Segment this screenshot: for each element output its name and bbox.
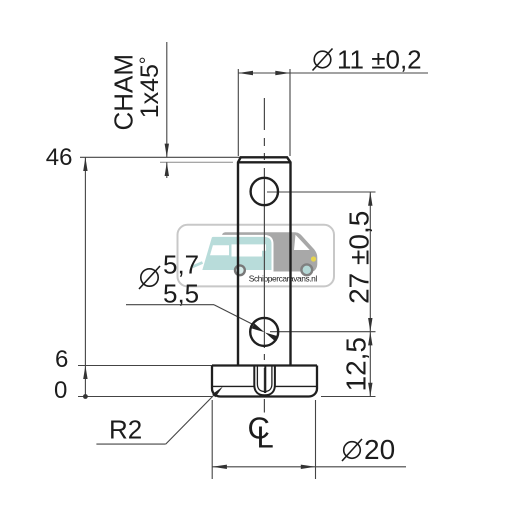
flange slot outer U: [254, 366, 275, 395]
dimension CHAM 1x45: [166, 42, 168, 157]
svg-text:46: 46: [46, 144, 73, 171]
svg-text:11 ±0,2: 11 ±0,2: [337, 45, 422, 75]
svg-text:L: L: [257, 420, 274, 455]
dimension diameter 11: [237, 69, 239, 156]
flange slot center line: [264, 366, 266, 393]
svg-text:5,5: 5,5: [163, 279, 199, 309]
svg-text:1x45°: 1x45°: [136, 56, 164, 118]
flange outline: [212, 366, 317, 397]
caravan teal: [201, 236, 273, 271]
flange slot inner U: [257, 366, 272, 392]
label diameter 11 ±0,2: [313, 49, 333, 71]
svg-text:6: 6: [55, 346, 68, 373]
extension line 46/CHAM top (y=157.3): [80, 156, 241, 158]
svg-text:20: 20: [364, 434, 395, 465]
label diameter 20: [342, 439, 362, 461]
dimension diameter 20: [211, 400, 213, 479]
flange inner line (R2 tangent): [212, 385, 254, 387]
top hole: [251, 178, 278, 205]
svg-text:0: 0: [54, 377, 67, 404]
motorhome gray: [222, 232, 317, 271]
svg-text:Schippercaravans.nl: Schippercaravans.nl: [249, 273, 318, 283]
extension line 6 (y=365.5): [78, 365, 212, 367]
part outline: shaft with chamfer: [238, 157, 291, 365]
watermark logo Schippercaravans.nl: [178, 225, 335, 287]
svg-text:CHAM: CHAM: [109, 54, 139, 131]
dimension 46/6/0 vertical line: [84, 157, 86, 396]
dimension 27 / 12,5 vertical: [369, 192, 371, 397]
extension line bottom hole center: [270, 331, 376, 333]
svg-text:12,5: 12,5: [340, 337, 371, 392]
centerline: [263, 98, 265, 413]
label diameter 5,7 / 5,5 with leader: [139, 266, 160, 289]
extension line 0 (y=396.5): [78, 396, 213, 398]
extension line top hole center: [267, 191, 376, 193]
bottom hole: [250, 318, 278, 346]
svg-text:R2: R2: [109, 415, 142, 445]
extension line 0 right: [321, 396, 376, 398]
svg-text:27 ±0,5: 27 ±0,5: [344, 211, 375, 304]
svg-text:5,7: 5,7: [163, 250, 199, 280]
extension line chamfer bottom: [160, 161, 233, 163]
